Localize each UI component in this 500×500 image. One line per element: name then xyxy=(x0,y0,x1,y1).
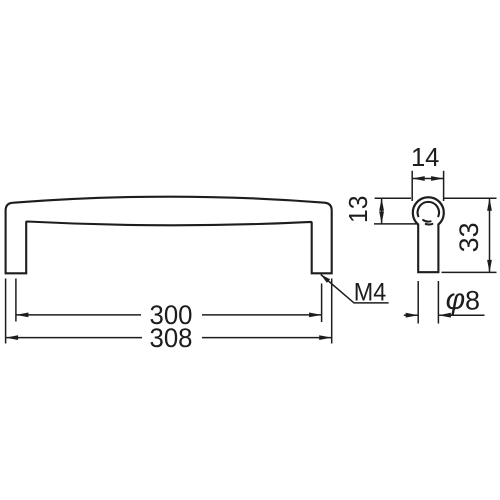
dimension line 308 xyxy=(6,335,332,340)
extension lines 13 xyxy=(374,198,417,224)
dimension line 33 xyxy=(487,198,492,272)
dimension text 300 xyxy=(150,300,193,330)
dimension text phi8 xyxy=(446,283,480,316)
dimension text 13 (rotated) xyxy=(343,195,373,223)
leader arrow M4 xyxy=(321,275,389,303)
dimension text 308 xyxy=(150,323,193,353)
extension line left outer (308) xyxy=(5,279,7,344)
side view outer ring circle xyxy=(413,197,444,224)
extension line left leg center (300) xyxy=(15,279,17,322)
svg-text:13: 13 xyxy=(343,195,373,223)
svg-text:φ: φ xyxy=(446,283,466,316)
label text M4 xyxy=(354,279,387,307)
handle front view outline xyxy=(6,197,332,274)
side view stem (vertical bar) xyxy=(418,224,438,273)
dimension line 300 xyxy=(16,313,322,318)
svg-text:14: 14 xyxy=(411,142,440,172)
side view inner circle hidden dashed arc xyxy=(423,220,432,224)
extension lines 33 xyxy=(442,198,497,272)
dimension text 33 (rotated) xyxy=(454,222,484,252)
extension line right outer (308) xyxy=(331,279,333,344)
dimension line 14 xyxy=(412,176,443,181)
dimension line 13 xyxy=(379,198,384,224)
extension lines 14 xyxy=(412,171,443,201)
svg-text:8: 8 xyxy=(465,285,480,315)
side view inner circle solid arc xyxy=(418,202,439,217)
svg-text:M4: M4 xyxy=(354,279,387,307)
dimension line phi8 (outside arrows) xyxy=(404,313,485,318)
dimension text 14 xyxy=(411,142,440,172)
extension lines phi8 xyxy=(418,281,438,324)
svg-text:308: 308 xyxy=(150,323,193,353)
svg-text:33: 33 xyxy=(454,222,484,252)
extension line right leg center (300) xyxy=(321,284,323,323)
